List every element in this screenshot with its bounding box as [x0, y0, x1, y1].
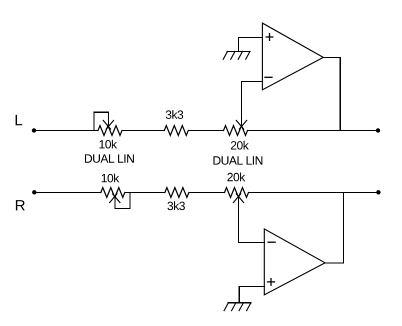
- wire VR2a to L output: [248, 130, 379, 132]
- node L input dot: [32, 128, 36, 132]
- U1 minus label: [265, 76, 272, 78]
- wire VR1b wiper strap (box to right terminal): [115, 193, 130, 209]
- wire U2 non-inverting input to ground: [239, 287, 264, 303]
- value label 20k (VR2b): [227, 173, 245, 182]
- value label 3k3 (R1): [166, 110, 183, 119]
- node R output dot: [376, 190, 380, 194]
- value label DUAL LIN (VR1): [85, 154, 134, 162]
- wire R input to VR1b: [34, 192, 101, 194]
- wire R1 to VR2a: [188, 130, 223, 132]
- node R input dot: [32, 190, 36, 194]
- potentiometer VR1b 10k element: [101, 188, 125, 198]
- U1 plus label: [266, 34, 273, 41]
- label L: [16, 115, 23, 125]
- wire U1 output: [323, 57, 340, 130]
- value label 20k (VR2a): [231, 141, 249, 150]
- VR1a wiper arrow: [103, 120, 113, 129]
- wire VR2b wiper to U2 inverting input: [239, 197, 265, 243]
- potentiometer VR2a 20k element: [224, 126, 248, 136]
- ground G1: [223, 51, 250, 59]
- potentiometer VR1a 10k element: [98, 126, 122, 136]
- label R: [16, 200, 25, 210]
- wire L input to VR1a: [34, 130, 98, 132]
- wire R2 to VR2b: [189, 192, 225, 194]
- wire VR1a to R1: [122, 130, 164, 132]
- value label 3k3 (R2): [167, 201, 184, 210]
- wire VR1b to R2: [125, 192, 165, 194]
- VR2a wiper arrow: [236, 120, 246, 129]
- U2 plus label: [268, 279, 275, 286]
- wire U2 output: [325, 193, 343, 263]
- wire VR1a wiper strap (box to left terminal): [94, 112, 109, 130]
- node L output dot: [376, 128, 380, 132]
- VR1b wiper arrow: [110, 194, 120, 203]
- wire U1 non-inverting input to ground: [239, 38, 263, 52]
- value label 10k (VR1a): [99, 140, 117, 149]
- ground G2: [224, 303, 251, 311]
- value label 10k (VR1b): [102, 174, 120, 183]
- resistor R1 3k3: [164, 126, 188, 136]
- VR2b wiper arrow: [233, 194, 243, 203]
- wire VR2a wiper to U1 inverting input: [242, 81, 263, 126]
- resistor R2 3k3: [165, 188, 189, 198]
- op-amp U1 triangle: [262, 23, 323, 90]
- U2 minus label: [268, 241, 275, 243]
- op-amp U2 triangle: [264, 229, 325, 295]
- wire VR2b to R output: [249, 192, 379, 194]
- potentiometer VR2b 20k element: [225, 188, 249, 198]
- value label DUAL LIN (VR2): [213, 156, 262, 164]
